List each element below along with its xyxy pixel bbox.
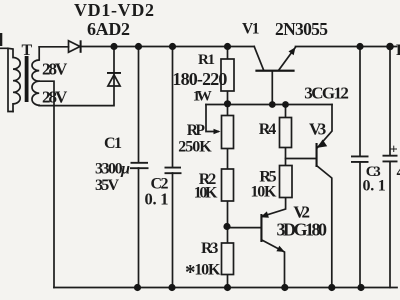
resistor R2 box [222, 169, 234, 201]
wire R1 bottom to bus [227, 91, 229, 116]
svg-text:V3: V3 [309, 120, 326, 139]
cut label fragment top-left [0, 33, 2, 46]
bottom rail [54, 287, 397, 289]
svg-text:3300μ: 3300μ [95, 161, 130, 178]
node R1/RP junction [224, 100, 231, 107]
resistor R5 box [280, 166, 293, 198]
potentiometer RP box [222, 116, 234, 149]
svg-text:28V: 28V [42, 60, 68, 79]
svg-text:35V: 35V [95, 177, 119, 194]
V1 base bar [255, 70, 294, 72]
node top rail at VD2 [110, 43, 117, 50]
capacitor C4 plates [383, 156, 398, 162]
node bottom rail at V3 collector [328, 284, 335, 291]
V2 emitter arrowhead [276, 246, 284, 252]
node top rail at C4 [386, 43, 394, 51]
V1 emitter arrowhead [289, 47, 296, 55]
V2 collector wire to R5 [263, 198, 286, 217]
resistor R4 box [280, 118, 292, 148]
svg-text:1W: 1W [193, 89, 212, 105]
wire RP bottom to R2 top [227, 149, 229, 170]
paper background [0, 47, 397, 288]
wire secondary bottom to VD2 anode [39, 47, 114, 106]
RP wiper arrowhead [214, 129, 221, 135]
wire junction to V3 base [286, 158, 316, 160]
node top rail at C2 [169, 43, 176, 50]
V3 collector wire [317, 166, 332, 288]
center tap wire to bottom rail [39, 81, 54, 287]
V2 emitter wire [261, 240, 284, 288]
node bottom rail at C2 [168, 284, 175, 291]
wire R4 bottom junction R5 top [285, 148, 287, 166]
svg-text:10K: 10K [194, 185, 218, 202]
wire R4 top [285, 105, 287, 118]
base bus wire y=104.5 [206, 104, 332, 106]
svg-text:250K: 250K [178, 139, 212, 156]
transformer T primary winding [0, 48, 13, 111]
wire C3 [359, 47, 361, 288]
node top rail at C1 [135, 43, 142, 50]
node V1 base on bus [269, 101, 276, 108]
transformer T secondary winding upper 28V [32, 47, 39, 81]
top rail right segment (V1 emitter to right edge) [296, 46, 397, 48]
node bottom rail at V2 emitter [281, 284, 288, 291]
wire C1 [138, 47, 140, 288]
svg-text:6AD2: 6AD2 [87, 19, 130, 39]
svg-text:3CG12: 3CG12 [304, 84, 349, 103]
V3 base bar [316, 143, 318, 167]
node bottom rail at C3 [357, 284, 364, 291]
svg-text:C1: C1 [104, 135, 122, 152]
resistor R3 box [222, 243, 234, 275]
node top rail at C3 [356, 43, 363, 50]
svg-text:T: T [22, 42, 33, 59]
node R4 top on bus [282, 101, 289, 108]
capacitor C3 plates [351, 156, 369, 162]
node bottom rail at C1 [134, 284, 141, 291]
wire C2 [172, 47, 174, 288]
svg-text:V1: V1 [242, 21, 260, 38]
node top rail at R1 [224, 43, 231, 50]
V2 label leader arrow [260, 211, 269, 217]
wire secondary top to VD1 [39, 46, 68, 48]
V3 emitter arrowhead (PNP, points into base) [317, 140, 327, 148]
svg-text:3DG180: 3DG180 [277, 220, 328, 240]
capacitor C2 plates [165, 168, 182, 174]
capacitor C1 plates [130, 163, 149, 168]
svg-text:0. 1: 0. 1 [145, 190, 169, 209]
top rail left segment (VD1 cathode to V1 collector) [81, 46, 255, 48]
node R2/R3/V2 base [223, 223, 230, 230]
node wire R1 top [227, 47, 229, 60]
transformer T secondary winding lower 28V [32, 81, 39, 105]
node bottom rail at R3 [224, 284, 231, 291]
svg-text:R3: R3 [201, 240, 218, 257]
diode VD1 [69, 41, 81, 53]
svg-text:+: + [390, 143, 398, 158]
svg-text:R: R [396, 42, 400, 59]
svg-text:28V: 28V [42, 88, 68, 107]
svg-text:R4: R4 [259, 121, 277, 138]
svg-text:R1: R1 [198, 52, 215, 68]
diode VD2 [108, 75, 120, 86]
transformer core [25, 56, 29, 102]
V3 emitter wire [318, 105, 333, 148]
svg-text:0. 1: 0. 1 [363, 178, 386, 195]
wire V2 base [227, 227, 260, 229]
wire R3 bottom to rail [227, 275, 229, 288]
resistor R1 box [221, 59, 234, 91]
svg-text:VD1-VD2: VD1-VD2 [74, 0, 154, 20]
svg-text:180-220: 180-220 [172, 69, 227, 89]
svg-text:4: 4 [397, 164, 400, 181]
svg-text:2N3055: 2N3055 [275, 19, 328, 39]
V2 base bar [260, 214, 262, 242]
wire R2 bottom to R3 top [227, 201, 229, 243]
V1 collector wire [254, 47, 263, 70]
svg-text:RP: RP [187, 122, 206, 139]
V1 base wire [271, 72, 273, 105]
wire C4 electrolytic right edge [389, 47, 391, 288]
V1 emitter wire [279, 47, 296, 70]
RP wiper wire [206, 105, 218, 132]
svg-text:10K: 10K [251, 183, 278, 200]
